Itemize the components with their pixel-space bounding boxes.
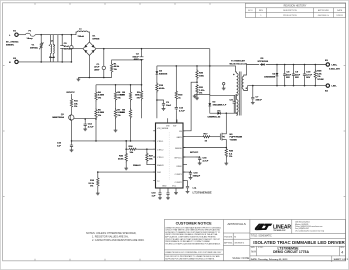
- svg-text:DATE: Thursday, February 03,: DATE: Thursday, February 03, 2013: [251, 258, 288, 261]
- terminal E1: [9, 31, 18, 37]
- svg-text:50V: 50V: [306, 77, 310, 79]
- mid rail: [157, 66, 236, 72]
- svg-text:100k: 100k: [199, 75, 205, 77]
- varistor V1: [30, 35, 44, 62]
- gate wire: [183, 136, 202, 138]
- svg-text:3.09M: 3.09M: [98, 112, 104, 114]
- input rating label: [6, 41, 19, 47]
- op-amp U1 LT3799EMSE: [153, 118, 187, 188]
- svg-text:STPS2150: STPS2150: [258, 61, 269, 63]
- resistor R11: [70, 98, 78, 115]
- node V1 top: [40, 34, 42, 36]
- svg-text:GEORGE G: GEORGE G: [234, 243, 244, 245]
- svg-text:Wurth Electronik: Wurth Electronik: [230, 62, 248, 65]
- svg-text:APPROVED: APPROVED: [318, 9, 330, 12]
- svg-text:49.9k: 49.9k: [159, 87, 165, 90]
- wire E2 row: [18, 61, 58, 63]
- frame zone ticks top: [35, 3, 210, 5]
- capacitor C15: [57, 140, 73, 152]
- svg-text:1%: 1%: [98, 97, 101, 99]
- wire bridge right to HV rail: [96, 48, 210, 50]
- svg-text:NOTES: UNLESS OTHERWISE SPECIF: NOTES: UNLESS OTHERWISE SPECIFIED,: [86, 232, 137, 235]
- svg-text:3.09M: 3.09M: [98, 95, 104, 97]
- transistor M1 MOSFET: [220, 131, 242, 143]
- svg-text:FBAUX: FBAUX: [133, 164, 141, 167]
- fuse F1: [26, 31, 36, 40]
- svg-text:GATE: GATE: [177, 136, 183, 139]
- svg-text:VCC: VCC: [172, 186, 177, 188]
- svg-text:CMZ5936B: CMZ5936B: [264, 77, 276, 79]
- svg-text:PCB DES.: PCB DES.: [224, 237, 233, 239]
- svg-text:SW: SW: [173, 126, 176, 128]
- COMP1 pin cap: [183, 171, 201, 180]
- svg-text:47uF: 47uF: [94, 66, 100, 69]
- diode D4: [156, 66, 169, 75]
- svg-text:SHEET 1 OF 1: SHEET 1 OF 1: [334, 259, 349, 261]
- terminal E3: [325, 60, 340, 71]
- svg-text:47nF: 47nF: [64, 45, 70, 48]
- INTVCC pin wire: [183, 152, 199, 157]
- emitter wire down: [71, 122, 73, 141]
- test point ground: [222, 83, 226, 90]
- svg-text:INTVCC: INTVCC: [174, 157, 182, 159]
- resistor R18: [156, 75, 166, 118]
- snubber box D2/D3/C11: [210, 94, 235, 113]
- ground column2: [114, 129, 118, 132]
- svg-text:49.9k: 49.9k: [114, 65, 120, 68]
- resistor R8 column3: [120, 85, 132, 102]
- svg-text:IC NO.: IC NO.: [258, 247, 264, 249]
- customer notice cell: [222, 220, 224, 261]
- frame zone ticks bottom: [35, 259, 140, 261]
- resistor R19: [175, 66, 183, 106]
- capacitor C14: [83, 118, 94, 131]
- svg-text:1. RESISTOR VALUES ARE 5%,: 1. RESISTOR VALUES ARE 5%,: [92, 236, 129, 239]
- wire bridge left to rail: [71, 48, 83, 50]
- wire to snubber top: [195, 93, 210, 95]
- svg-text:400V: 400V: [94, 68, 100, 71]
- svg-text:1%: 1%: [90, 186, 93, 188]
- resistor R5 column1: [95, 101, 104, 141]
- svg-text:1%: 1%: [117, 97, 120, 99]
- svg-text:T1 750811487: T1 750811487: [231, 59, 246, 62]
- svg-text:22uF: 22uF: [286, 74, 292, 76]
- svg-text:4.7uF: 4.7uF: [203, 159, 209, 162]
- svg-text:Fax: (408)434-0507: Fax: (408)434-0507: [295, 228, 309, 230]
- svg-text:COMP1: COMP1: [175, 174, 183, 176]
- ground R16: [96, 192, 100, 195]
- node mid rail / R20: [196, 65, 198, 67]
- svg-text:CTRL1: CTRL1: [157, 141, 164, 143]
- sense tap wire: [183, 147, 226, 149]
- svg-text:ISOLATED TRIAC DIMMABLE LED DR: ISOLATED TRIAC DIMMABLE LED DRIVER: [253, 240, 345, 245]
- approvals cell: [249, 220, 251, 261]
- svg-text:BAS516: BAS516: [159, 72, 168, 75]
- svg-text:4: 4: [341, 251, 343, 255]
- resistor R7 column2: [114, 101, 123, 129]
- ground at rail: [77, 78, 81, 81]
- bottom pin cap C20: [166, 189, 170, 200]
- svg-text:4.7uF: 4.7uF: [88, 125, 94, 128]
- svg-text:ECO: ECO: [248, 10, 253, 12]
- svg-text:0.33A, 25V: 0.33A, 25V: [329, 68, 340, 71]
- svg-text:N/A: N/A: [251, 250, 256, 254]
- svg-text:CTRL3: CTRL3: [157, 157, 164, 159]
- svg-text:1%: 1%: [229, 156, 232, 158]
- resistor R27: [146, 148, 156, 164]
- svg-text:LED+: LED+: [332, 65, 338, 67]
- ladder rail: [96, 84, 142, 86]
- ground R21: [195, 96, 199, 99]
- svg-text:PRODUCTION: PRODUCTION: [283, 15, 297, 17]
- svg-text:35V: 35V: [295, 77, 299, 79]
- resistor R10: [135, 85, 143, 119]
- svg-text:CUSTOMER NOTICE: CUSTOMER NOTICE: [176, 222, 213, 226]
- capacitor C10: [303, 64, 313, 87]
- ground left of snubber: [193, 94, 197, 97]
- resistor R1: [110, 60, 141, 78]
- wire choke to bridge rail: [58, 35, 75, 62]
- bottom pin ground: [174, 189, 178, 195]
- svg-text:GND: GND: [162, 186, 167, 188]
- output top rail: [247, 64, 327, 66]
- inductor L1: [75, 29, 90, 43]
- svg-text:GEORGE G.: GEORGE G.: [318, 15, 330, 17]
- output bottom rail: [248, 85, 327, 87]
- svg-text:CTRL2: CTRL2: [157, 149, 164, 151]
- svg-text:100nF: 100nF: [132, 56, 139, 58]
- svg-text:1000pF: 1000pF: [193, 175, 201, 177]
- svg-text:SCALE = NONE: SCALE = NONE: [232, 257, 249, 260]
- svg-text:TITLE: SCHEMATIC: TITLE: SCHEMATIC: [251, 234, 272, 237]
- capacitor C16: [195, 156, 208, 165]
- svg-text:49.9k: 49.9k: [118, 157, 124, 160]
- capacitor C1: [94, 48, 105, 78]
- svg-text:1%: 1%: [98, 115, 101, 117]
- svg-text:INTVCC: INTVCC: [67, 92, 76, 94]
- U1 refdes: [193, 186, 212, 195]
- terminal E4: [325, 84, 337, 93]
- svg-text:1%: 1%: [117, 115, 120, 117]
- svg-text:39mH: 39mH: [49, 57, 55, 59]
- resistor R16: [89, 171, 100, 191]
- svg-text:DF06S: DF06S: [93, 38, 100, 40]
- capacitor C8: [283, 64, 292, 87]
- svg-text:FREF: FREF: [177, 166, 183, 168]
- svg-text:1uF: 1uF: [57, 146, 62, 148]
- diode D2: [208, 102, 226, 107]
- svg-text:10nF: 10nF: [166, 105, 172, 107]
- svg-text:DATE: DATE: [337, 9, 343, 12]
- capacitor C3: [156, 99, 172, 110]
- wire bridge bottom to ground rail: [88, 55, 90, 77]
- svg-text:90 - 270VAC: 90 - 270VAC: [6, 41, 19, 44]
- svg-text:1.0M: 1.0M: [120, 95, 125, 97]
- capacitor C5: [60, 34, 72, 63]
- svg-text:1N4148W-7-F: 1N4148W-7-F: [213, 103, 227, 106]
- node snubber/drain: [226, 112, 228, 114]
- svg-text:COMP2: COMP2: [175, 182, 183, 184]
- svg-text:INTVCC: INTVCC: [190, 152, 199, 154]
- svg-text:1.0M: 1.0M: [120, 112, 125, 114]
- svg-text:CMMR1U-02: CMMR1U-02: [208, 116, 222, 118]
- svg-text:DIM: DIM: [157, 172, 161, 174]
- svg-text:LED-: LED-: [332, 86, 337, 88]
- revision history table: [245, 3, 345, 17]
- cap symbol small circle: [70, 34, 73, 63]
- divider left of IC: resistor R23: [125, 140, 147, 154]
- svg-text:DEMO CIRCUIT 1775A: DEMO CIRCUIT 1775A: [273, 250, 309, 254]
- node C2 top: [141, 48, 143, 50]
- svg-text:VIN_SENSE: VIN_SENSE: [157, 128, 169, 130]
- FB divider tap wire: [183, 82, 197, 131]
- svg-text:LT3799EMSE: LT3799EMSE: [193, 191, 212, 195]
- svg-text:1/28/11: 1/28/11: [336, 15, 343, 17]
- svg-text:REV.: REV.: [340, 247, 345, 249]
- transistor Q1: [52, 114, 74, 122]
- terminal E2: [9, 58, 18, 64]
- svg-text:REV: REV: [259, 10, 264, 12]
- svg-text:1uF: 1uF: [152, 195, 157, 197]
- INTVCC label: [67, 92, 76, 99]
- HV rail step down: [209, 49, 211, 96]
- capacitor C12: [175, 106, 186, 123]
- svg-text:APPROVALS: APPROVALS: [227, 222, 246, 226]
- resistor R28: [314, 64, 324, 87]
- zener U4: [264, 64, 278, 87]
- svg-text:MMBT3904: MMBT3904: [52, 116, 64, 119]
- svg-text:100k: 100k: [135, 95, 141, 97]
- base wire: [74, 118, 96, 120]
- common mode choke U2: [49, 35, 58, 62]
- transformer T1: [230, 59, 248, 115]
- ground R25: [124, 167, 128, 170]
- wire fuse to choke: [35, 34, 58, 36]
- svg-text:4.7uF: 4.7uF: [306, 73, 312, 76]
- svg-text:35V: 35V: [286, 77, 290, 79]
- svg-text:DESCRIPTION: DESCRIPTION: [283, 10, 297, 12]
- svg-text:LINEAR TECHNOLOGY CONFIDENTIAL: LINEAR TECHNOLOGY CONFIDENTIAL: FOR CUST…: [165, 251, 222, 254]
- svg-text:REVISION HISTORY: REVISION HISTORY: [284, 5, 307, 8]
- bottom pin cap C19: [152, 189, 162, 200]
- svg-text:1%: 1%: [137, 97, 140, 99]
- LT logo: [255, 224, 291, 232]
- svg-text:APP ENG.: APP ENG.: [224, 242, 233, 245]
- svg-text:FBAUX: FBAUX: [157, 164, 164, 167]
- wire E1 to fuse: [18, 34, 25, 36]
- node V1 bottom: [40, 61, 42, 63]
- ground M1 source: [224, 162, 228, 165]
- svg-text:2. CAPACITORS AND RESISTORS AR: 2. CAPACITORS AND RESISTORS ARE 0603.: [92, 239, 145, 242]
- capacitor C7: [251, 85, 263, 104]
- bridge rectifier D1: [83, 36, 100, 56]
- diode D3: [218, 110, 222, 114]
- wire drain: [225, 113, 227, 130]
- ground rail: [78, 77, 111, 79]
- svg-text:300VAC: 300VAC: [30, 46, 39, 49]
- svg-text:Phone: (408)432-1900 www.lin: Phone: (408)432-1900 www.linear.com: [295, 226, 323, 228]
- resistor R6 column2: [114, 85, 123, 102]
- svg-text:4.7uF: 4.7uF: [179, 110, 185, 113]
- svg-text:FQPF7N40B: FQPF7N40B: [230, 136, 243, 139]
- svg-text:50/60Hz: 50/60Hz: [6, 45, 15, 47]
- node ladder column2 top: [115, 84, 117, 86]
- FBAUX label wire: [133, 164, 141, 167]
- svg-text:1Amp: 1Amp: [27, 37, 34, 40]
- capacitor C2: [132, 49, 143, 85]
- resistor R4 column1: [95, 85, 104, 102]
- svg-text:U1: U1: [193, 186, 197, 190]
- svg-text:750uH: 750uH: [78, 36, 85, 38]
- svg-text:TECHNOLOGY: TECHNOLOGY: [273, 230, 286, 232]
- wire CTRL rail 1: [72, 140, 156, 142]
- resistor R17 gate: [202, 134, 221, 143]
- capacitor C11: [230, 95, 236, 113]
- svg-text:VIN: VIN: [166, 126, 170, 128]
- capacitor C9: [292, 64, 301, 87]
- svg-text:TECHNOLOGY APPLICATIONS ENGINE: TECHNOLOGY APPLICATIONS ENGINEERING FOR …: [165, 243, 221, 246]
- svg-text:SENSE: SENSE: [175, 148, 182, 150]
- resistor R21: [196, 81, 205, 96]
- svg-text:1/10W: 1/10W: [317, 79, 324, 81]
- logo cell: [250, 233, 346, 235]
- svg-text:1%: 1%: [317, 76, 320, 78]
- resistor R20: [196, 66, 205, 82]
- COMP2 pin cap: [183, 181, 189, 193]
- svg-text:SUPPLIED FOR USE WITH LINEAR T: SUPPLIED FOR USE WITH LINEAR TECHNOLOGY …: [165, 257, 215, 260]
- svg-text:220nF: 220nF: [256, 99, 263, 101]
- node mid rail / R19: [176, 65, 178, 67]
- frame zone ticks sides: [3, 66, 346, 197]
- svg-text:1%: 1%: [74, 106, 77, 108]
- resistor R9 column3: [120, 101, 132, 141]
- svg-text:22uF: 22uF: [295, 74, 301, 76]
- resistor R25: [118, 148, 127, 166]
- node R1 rail: [141, 59, 143, 61]
- node ladder column3 top: [130, 84, 132, 86]
- svg-text:1%: 1%: [114, 69, 117, 71]
- svg-text:450V: 450V: [134, 58, 140, 61]
- wire CTRL rail 2: [98, 171, 156, 173]
- svg-text:51.1k: 51.1k: [89, 183, 95, 185]
- svg-text:YG20B: YG20B: [230, 139, 238, 141]
- svg-text:1.21k: 1.21k: [199, 90, 205, 92]
- diode D5: [258, 58, 269, 66]
- resistor R26 sense: [225, 143, 234, 162]
